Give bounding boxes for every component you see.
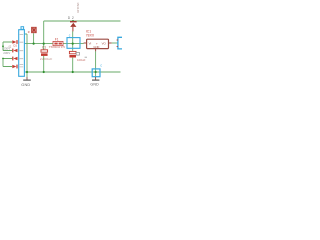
svg-text:D2: D2 [68,16,76,20]
diode D4 [12,65,17,69]
svg-text:VO: VO [102,42,107,46]
connector X1 body [19,30,25,77]
fuse F1 body [53,41,63,45]
capacitor C2 gray tag [76,52,79,55]
svg-text:230V: 230V [3,51,10,55]
wire connector right pin to vertical [25,34,28,77]
diode D5 cathode bar [70,21,77,22]
svg-text:2200uF: 2200uF [40,57,53,61]
capacitor C2 top plate [69,51,76,53]
connector pin name marks [20,35,24,67]
wire left input loop A [3,42,12,51]
IC1 output pin [109,42,112,44]
svg-text:C1: C1 [42,46,46,50]
IC1 gnd pin [95,49,97,52]
ground symbol 2 pin [95,77,97,80]
wire mid horizontal to fuse and IC [25,43,84,45]
annotation box A [67,38,80,49]
svg-text:D1: D1 [14,44,18,48]
diode D2 [12,49,17,53]
IC1 input pin [84,42,87,44]
wire left input loop B [3,59,12,67]
annotation box B [92,69,100,77]
capacitor C1 bottom plate [41,53,48,56]
diode D3 [12,57,17,61]
connector X1 top nub [21,27,24,30]
fuse F1 inner blocks [54,43,57,45]
svg-text:R: R [28,30,30,34]
wire IC gnd down [95,51,97,77]
wire bottom ground bus [25,71,121,73]
connector X2 bracket [118,37,122,49]
svg-text:F1: F1 [55,38,59,42]
diode D1 [12,40,17,44]
svg-text:78XX: 78XX [86,34,95,38]
connector X2 pin nubs [117,40,118,46]
ground symbol 2 bar [92,79,99,81]
IC1 body [87,39,109,48]
capacitor C2 bottom plate [69,55,76,58]
wire IC output to connector X2 [112,42,118,44]
svg-text:c: c [69,33,71,37]
svg-text:GND: GND [21,83,30,87]
svg-text:+: + [96,42,98,46]
svg-text:02: 02 [9,46,12,49]
svg-text:T500mA 3.5: T500mA 3.5 [49,45,66,49]
wire diode D5 node down through box to C2 [72,31,74,72]
svg-text:1N4148: 1N4148 [76,2,80,13]
svg-text:c: c [100,64,102,68]
capacitor C1 top plate [41,50,48,52]
ground symbol bar [23,79,31,81]
varistor R/X component [32,27,37,32]
diode D5 pin [72,27,74,32]
connector X1 right pin nubs [25,34,26,72]
svg-text:GND: GND [90,82,99,86]
svg-text:VI: VI [89,42,92,46]
svg-text:GND: GND [93,45,99,49]
junction dots [43,43,45,45]
wire varistor stub [33,33,35,43]
ground symbol pin [26,77,28,80]
stray gray tick [85,56,87,58]
wire top rail [44,20,121,22]
wire vertical from top rail to C1 [43,21,45,72]
diode D5 triangle [70,23,76,27]
svg-text:100uF: 100uF [77,58,86,62]
